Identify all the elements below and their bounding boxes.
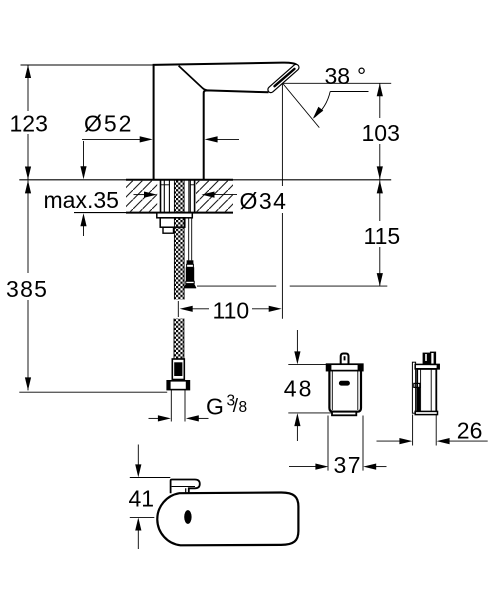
svg-text:38: 38	[325, 63, 351, 89]
svg-text:41: 41	[129, 486, 155, 512]
arrow 123 top	[25, 65, 31, 78]
dimension line 385 vertical	[27, 180, 29, 390]
arrow 115 top	[377, 180, 383, 193]
max.35 upper arrow	[83, 141, 85, 167]
dim 41 bottom arrow	[137, 531, 139, 550]
vertical reference line from spout outlet	[281, 84, 283, 319]
deck bottom line	[74, 212, 233, 214]
sensor window	[184, 510, 191, 524]
svg-text:385: 385	[6, 276, 48, 302]
control box front view rim	[327, 364, 363, 370]
braided hose upper segment	[174, 180, 184, 300]
dim 110 right arrow	[252, 308, 269, 310]
mounting nut	[160, 218, 185, 227]
deck top line thick over counter	[126, 179, 233, 181]
spout outlet nib outer capsule	[271, 67, 296, 89]
G3/8 left arrow	[149, 417, 159, 419]
arrow 385 top	[25, 180, 31, 193]
sensor cable	[188, 218, 190, 261]
deck hatch right patch	[196, 181, 233, 212]
control box side view back plate	[412, 362, 415, 413]
shank inner top ticks	[161, 184, 170, 186]
box front slot	[339, 381, 350, 386]
dim line Ø52 right	[217, 138, 239, 140]
arrow 385 bottom	[25, 377, 31, 390]
svg-text:110: 110	[213, 297, 250, 323]
arrow 123 bottom	[25, 167, 31, 180]
svg-text:48: 48	[284, 376, 314, 402]
faucet column right edge and spout underside	[204, 90, 269, 179]
dim 26 left arrow	[377, 440, 401, 442]
extension line bottom (hose end level)	[19, 391, 167, 393]
dimension line 123 vertical	[27, 65, 29, 180]
shank outer tube left	[160, 180, 162, 213]
faucet side view spout tab	[171, 480, 200, 494]
faucet inner funnel diagonal	[179, 66, 208, 91]
svg-text:103: 103	[362, 120, 400, 146]
box side nipple 1	[423, 353, 430, 365]
box front bottom plate	[332, 412, 356, 416]
svg-text:max.35: max.35	[44, 187, 119, 213]
hose connector block	[172, 359, 184, 380]
box front top nipple	[341, 354, 349, 365]
svg-text:Ø52: Ø52	[84, 110, 133, 136]
dim 48 top extension line	[288, 364, 328, 366]
deck top line	[19, 179, 391, 181]
38 degree arc	[314, 92, 330, 118]
svg-text:123: 123	[10, 111, 48, 137]
38 degree sloped line	[283, 84, 320, 128]
dim 41 top arrow	[137, 445, 139, 466]
G3/8 hose end nut	[167, 381, 189, 390]
shank outer tube right	[194, 180, 196, 213]
dim 37 left arrow	[289, 466, 316, 468]
box side bottom plate	[415, 411, 437, 414]
extension line top (faucet top level)	[21, 64, 154, 66]
38 degree leader under text	[330, 91, 368, 93]
deck hatch left patch	[126, 181, 157, 212]
dim line Ø34 left arrow	[134, 194, 145, 196]
svg-text:G: G	[206, 394, 224, 420]
svg-text:26: 26	[457, 417, 483, 443]
arrow 103 bottom	[377, 166, 383, 179]
shank inner tubes	[163, 180, 165, 213]
max.35 lower arrow	[83, 226, 85, 236]
dim 48 bottom arrow	[296, 426, 298, 441]
control box front body	[329, 371, 361, 412]
box side body	[417, 369, 436, 413]
dim 103 vertical line	[379, 83, 381, 118]
braided hose lower segment	[174, 319, 184, 360]
dim 110 left arrow	[192, 308, 209, 310]
faucet body left and top outline	[154, 63, 297, 180]
nut lower piece	[163, 227, 174, 233]
faucet side view capsule body	[157, 492, 298, 545]
white backing for dim texts crossing lines	[7, 111, 48, 134]
box side clip bar	[417, 387, 421, 411]
G3/8 extension lines	[170, 390, 172, 422]
box side inner lines	[420, 369, 422, 413]
svg-text:8: 8	[239, 399, 248, 416]
dim 48 bottom extension line	[288, 412, 332, 414]
dim 26 extension lines	[412, 415, 414, 446]
svg-text:Ø34: Ø34	[240, 188, 288, 214]
dim 37 right arrow	[376, 466, 387, 468]
G3/8 right arrow	[198, 417, 208, 419]
svg-text:°: °	[357, 63, 366, 89]
dim 115 vertical line	[379, 180, 381, 221]
box side clip hook	[414, 383, 420, 387]
box side nipple 2	[431, 352, 436, 364]
38 degree arc arrowhead	[313, 107, 323, 119]
38 degree vertex horizontal line to 103 dim	[283, 82, 391, 84]
extension line at 115 bottom / plug level	[197, 285, 276, 287]
box side rim	[415, 364, 439, 369]
deck bottom line thick over counter	[126, 212, 233, 214]
dim 41 bottom extension line	[130, 516, 155, 518]
cable plug connector	[187, 260, 194, 264]
mounting washer plate	[157, 213, 193, 218]
spout outlet dark slot	[275, 69, 295, 86]
dim 26 right arrow	[449, 440, 488, 442]
dim line Ø34 right arrow	[214, 194, 239, 196]
svg-text:37: 37	[334, 452, 363, 478]
box front inner lines	[331, 371, 333, 410]
arrow 115 bottom	[377, 273, 383, 286]
svg-text:115: 115	[364, 223, 401, 249]
arrow 103 top	[377, 83, 383, 96]
dim line Ø52 left	[82, 138, 140, 140]
dim 48 top arrow	[296, 330, 298, 352]
dim 37 extension lines	[327, 416, 329, 471]
dim 110 tick at hose axis	[177, 301, 179, 317]
dim 41 top extension line	[130, 477, 171, 479]
